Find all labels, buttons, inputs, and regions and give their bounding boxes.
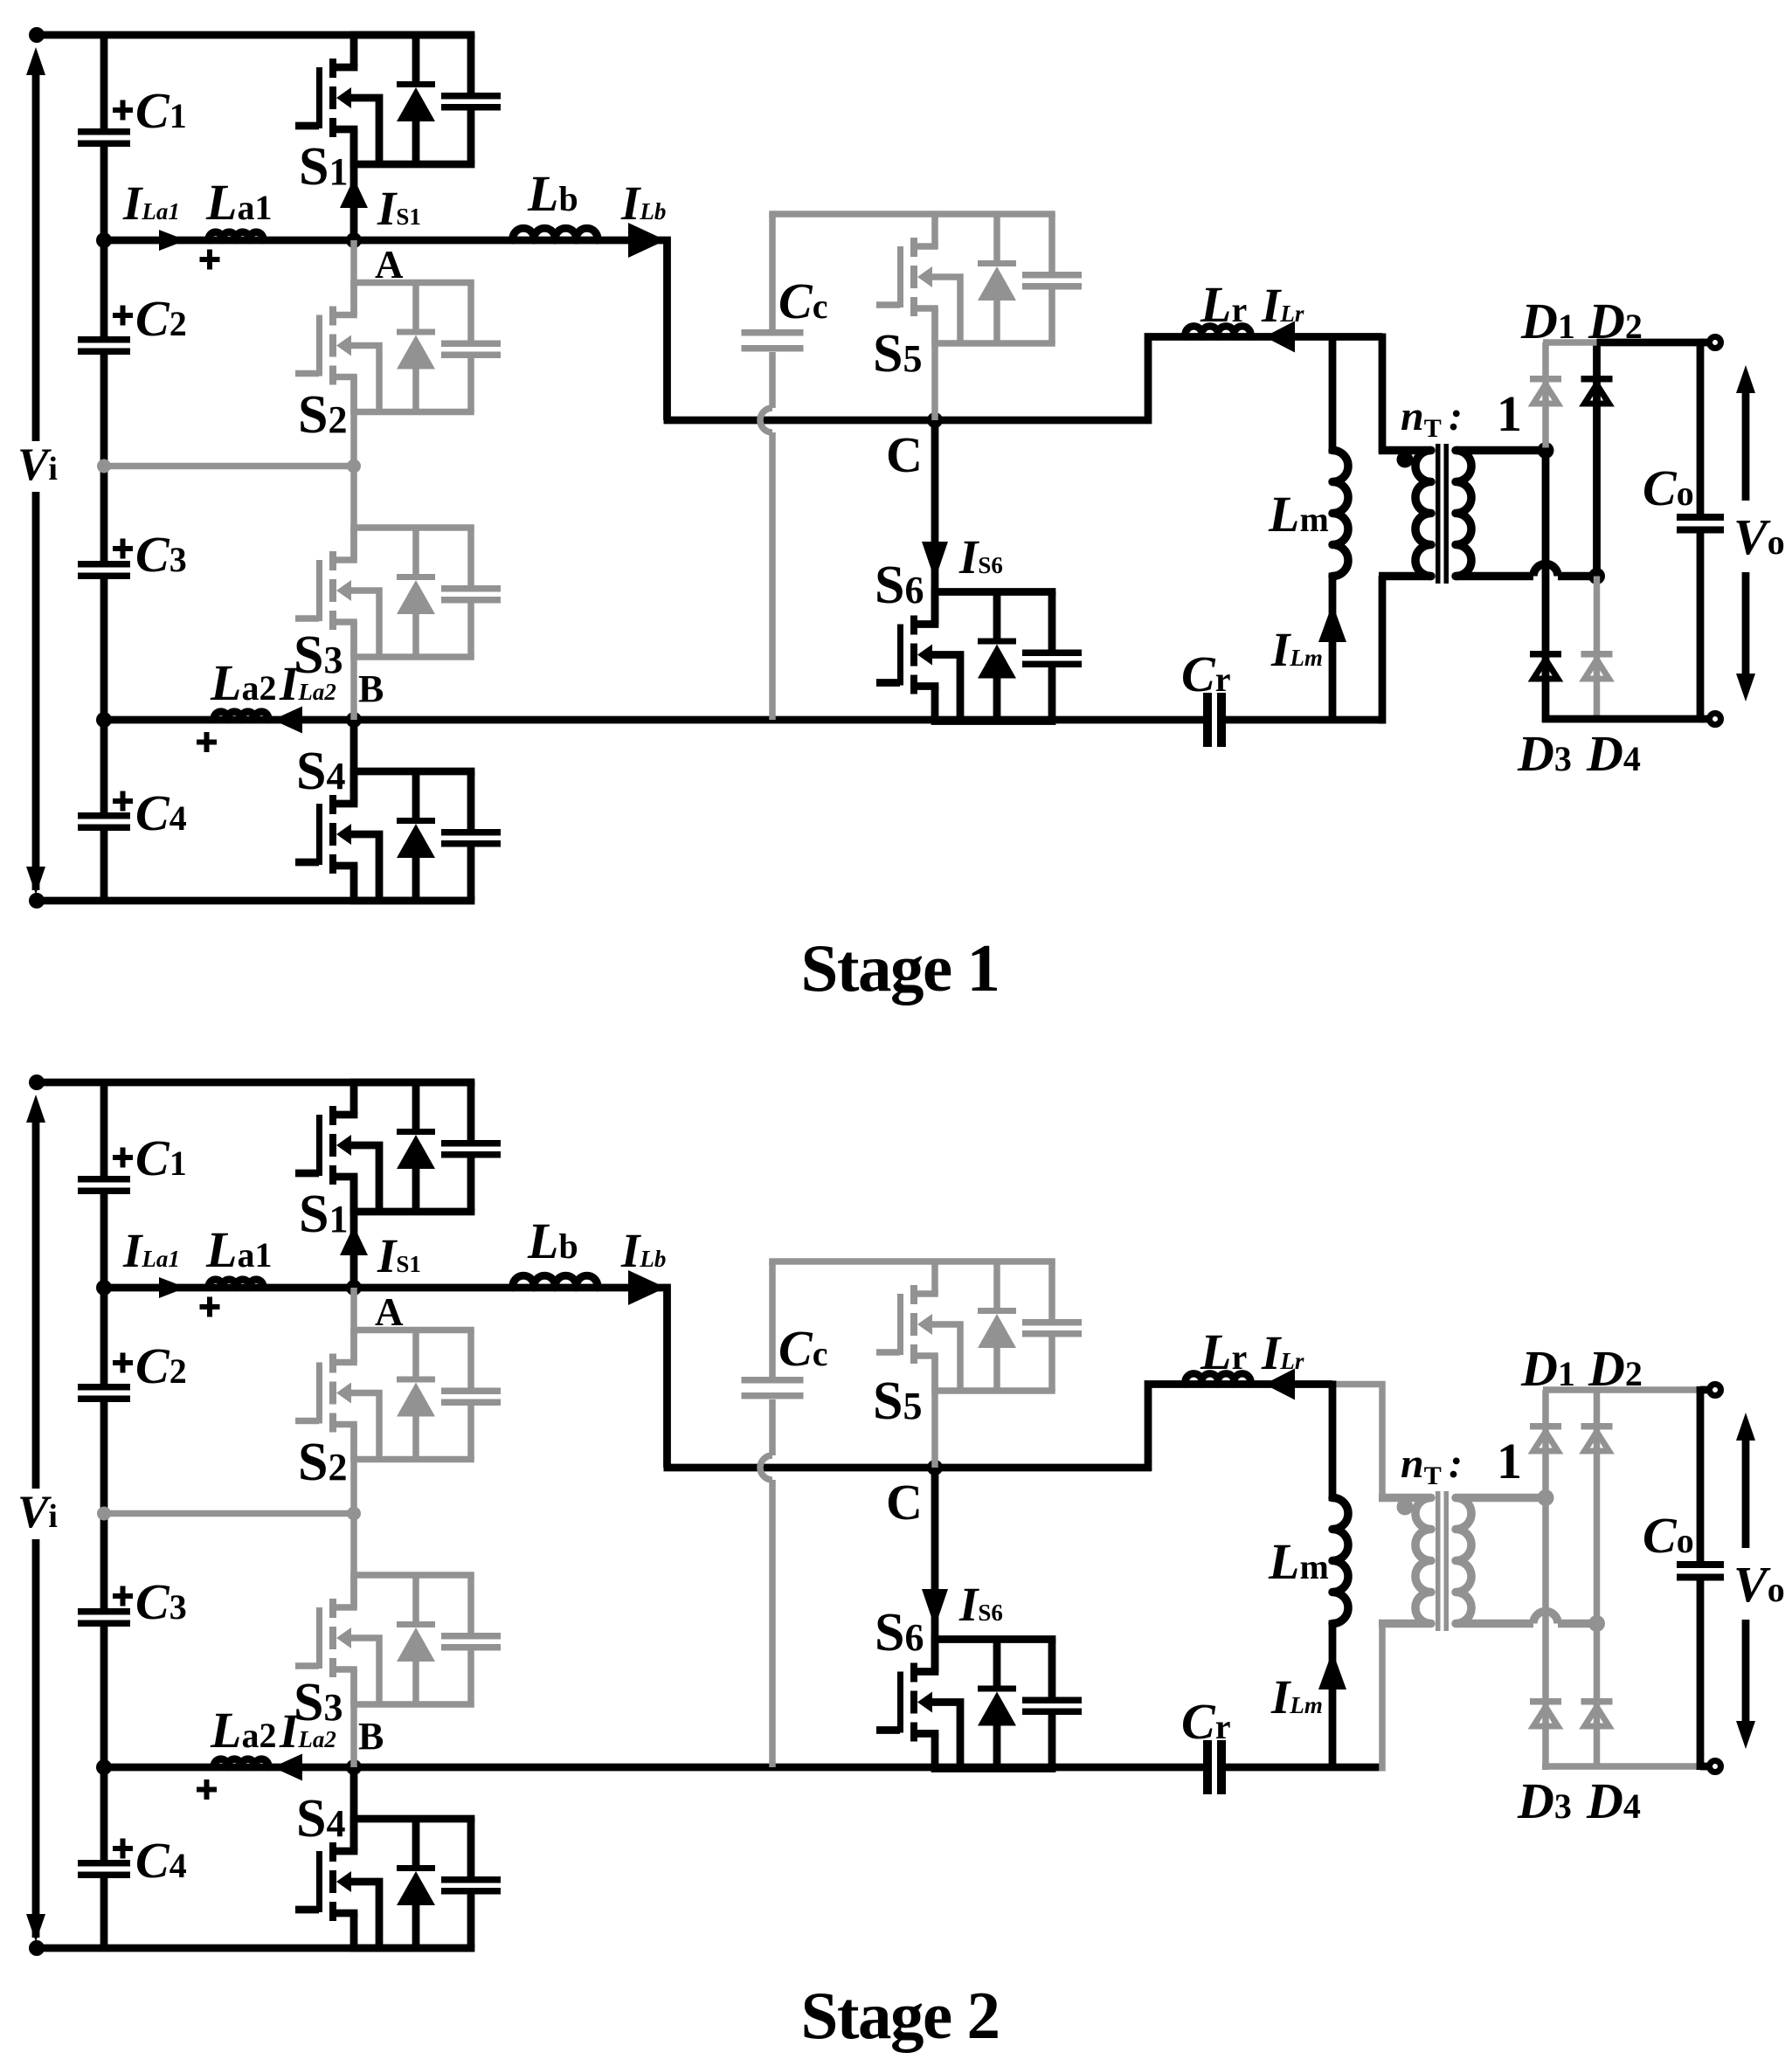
wire Lm winding to Cr wire — [1329, 573, 1337, 721]
label Lm — [1268, 486, 1329, 542]
transistor S3 (MOSFET, gray) — [295, 1574, 501, 1704]
label Stage 2 title — [801, 1978, 1000, 2053]
node top-left junction — [29, 1074, 45, 1090]
wire stub to top terminal — [1700, 1386, 1711, 1394]
wire rectifier top rail to output — [1597, 339, 1705, 347]
svg-text:1: 1 — [1497, 1433, 1522, 1489]
net Vo output-voltage arrow — [1736, 365, 1755, 701]
wire rectifier top rail D1-D2 — [1543, 1386, 1597, 1393]
diode D4 column (gray) — [1594, 1624, 1601, 1770]
wire output column — [1697, 339, 1705, 722]
label La1 — [205, 174, 272, 231]
label Lb — [527, 165, 578, 222]
label turns ratio colon — [1449, 1441, 1463, 1487]
node top-left junction — [29, 27, 45, 43]
capacitor Co — [1677, 514, 1724, 534]
capacitor C2 — [78, 1384, 130, 1402]
wire secondary top to D1 column — [1456, 1494, 1546, 1503]
transistor S2 (MOSFET, gray) — [295, 1330, 501, 1460]
node bottom-left junction — [29, 893, 45, 909]
current arrow IS6 — [922, 542, 948, 580]
terminal bottom output — [1710, 714, 1721, 725]
diode D3 column — [1542, 1498, 1549, 1771]
label ILr — [1261, 279, 1304, 332]
wire bottom rail — [33, 1945, 474, 1952]
wire capacitor chain — [100, 35, 108, 901]
wire stub to top terminal — [1700, 339, 1711, 347]
current arrow ILm — [1318, 1651, 1346, 1689]
wire Lb run — [354, 240, 668, 420]
terminal top output — [1710, 1385, 1721, 1396]
node bottom-left junction — [29, 1940, 45, 1956]
node B junction — [346, 712, 362, 728]
wire Lr wire down to Lm winding — [1329, 1381, 1337, 1502]
wire Lr corner down to primary — [1379, 334, 1387, 454]
wire mid rail (gray) — [104, 1510, 354, 1517]
label Co — [1643, 1507, 1694, 1564]
inductor Lr — [1186, 326, 1251, 336]
wire capacitor chain — [100, 1082, 108, 1948]
label node A — [375, 243, 404, 287]
label D1 — [1520, 293, 1575, 349]
wire node B to S4 drain — [350, 720, 358, 804]
diode D4 column (gray) — [1594, 577, 1601, 722]
diode D4 — [1581, 1698, 1613, 1726]
inductor La2 — [214, 712, 268, 720]
wire top rail — [33, 31, 474, 39]
label Vi — [17, 439, 58, 490]
label ILa1 — [122, 1224, 180, 1277]
capacitor C4 — [78, 1860, 130, 1878]
wire rectifier bottom rail — [1542, 1763, 1697, 1770]
diode D1 — [1530, 1423, 1561, 1451]
inductor Lm — [1332, 1498, 1348, 1624]
label turns ratio colon — [1449, 393, 1463, 439]
label +C2 — [113, 1337, 187, 1394]
transistor S4 (MOSFET) — [295, 770, 501, 901]
junction cap chain / node B wire — [96, 1759, 112, 1775]
label La2 — [210, 654, 276, 711]
label +C2 — [113, 290, 187, 347]
svg-text::: : — [1449, 393, 1463, 439]
label IS6 — [958, 530, 1003, 584]
label S6 — [875, 556, 924, 615]
wire mid rail to S3 drain — [350, 466, 357, 561]
transformer primary winding — [1379, 451, 1431, 577]
label +C3 — [113, 526, 187, 583]
junction secondary top node — [1538, 1489, 1554, 1506]
wire Lr to primary corner (gray) — [1332, 1385, 1382, 1502]
wire S5 source to node C — [931, 1356, 938, 1468]
diode D1 column (gray) — [1542, 342, 1549, 448]
label ILm — [1270, 623, 1323, 676]
label S3 — [294, 1673, 342, 1732]
transistor S6 (MOSFET) — [876, 1639, 1082, 1769]
inductor La2 — [214, 1759, 268, 1767]
capacitor Cr — [1203, 693, 1226, 747]
label Vo — [1733, 1556, 1785, 1613]
label node C — [886, 1474, 923, 1530]
wire Lb run — [354, 1288, 668, 1468]
wire node A run — [104, 237, 354, 245]
svg-text:Stage 1: Stage 1 — [801, 930, 1000, 1005]
label Vi — [17, 1487, 58, 1537]
inductor Lb — [513, 228, 598, 240]
node A junction — [346, 1280, 362, 1296]
capacitor Co — [1677, 1561, 1724, 1581]
label nT — [1401, 393, 1442, 443]
svg-text:C: C — [886, 426, 923, 483]
label D4 — [1586, 725, 1641, 782]
transformer secondary winding — [1456, 1498, 1471, 1624]
inductor Lr — [1186, 1373, 1251, 1384]
wire S3 source to node B — [350, 1669, 357, 1767]
current arrow ILa2 — [273, 1754, 302, 1781]
svg-text:Stage 2: Stage 2 — [801, 1978, 1000, 2053]
label D3 — [1517, 1772, 1572, 1829]
transformer primary winding — [1379, 1498, 1431, 1624]
wire Cr to primary — [1226, 1764, 1380, 1772]
label Cr — [1181, 646, 1230, 702]
wire top rail — [33, 1079, 474, 1087]
current arrow IS1 — [340, 178, 368, 208]
svg-text:1: 1 — [1497, 385, 1522, 442]
current arrow ILr — [1264, 1369, 1295, 1400]
junction secondary bottom node — [1588, 1615, 1605, 1632]
diode D2 column — [1594, 1390, 1601, 1621]
transistor S1 (MOSFET) — [295, 1081, 501, 1212]
wire Cc column (gray, hops node C wire) — [760, 214, 772, 720]
wire stub to bottom terminal — [1700, 1763, 1711, 1771]
label D3 — [1517, 725, 1572, 782]
label +C4 — [113, 1832, 187, 1889]
label Lr — [1200, 1323, 1247, 1380]
transistor S6 (MOSFET) — [876, 591, 1082, 722]
wire secondary top to D1 column — [1456, 446, 1546, 455]
wire Lm winding to Cr wire — [1329, 1620, 1337, 1768]
junction secondary bottom node — [1588, 568, 1605, 584]
wire S3 source to node B — [350, 622, 357, 720]
wire Lr wire down to Lm winding — [1329, 334, 1337, 454]
label ILm — [1270, 1670, 1323, 1724]
diode D2 column — [1593, 342, 1601, 574]
label Lb — [527, 1213, 578, 1269]
label S4 — [296, 1789, 345, 1848]
label +C1 — [113, 1130, 187, 1186]
wire bottom rail — [33, 897, 474, 905]
node B junction — [346, 1759, 362, 1775]
net Vi input-voltage arrow — [26, 1095, 45, 1942]
net Vi input-voltage arrow — [26, 47, 45, 895]
label D1 — [1520, 1340, 1575, 1397]
transistor S4 (MOSFET) — [295, 1818, 501, 1948]
current arrow ILb — [628, 1270, 666, 1305]
transformer core — [1436, 444, 1449, 584]
wire S1 source to node A — [350, 129, 358, 240]
inductor La1 — [209, 232, 263, 240]
label Vo — [1733, 508, 1785, 565]
wire rectifier top rail to output — [1597, 1386, 1698, 1393]
label Cr — [1181, 1693, 1230, 1750]
wire node C to S6 drain — [931, 420, 939, 625]
current arrow IS6 — [922, 1589, 948, 1627]
diode D1 column (gray) — [1542, 1390, 1549, 1496]
wire node C corner up to Lr wire — [1148, 1385, 1332, 1472]
transformer core — [1436, 1491, 1449, 1631]
label Cc — [778, 273, 827, 329]
label S6 — [875, 1603, 924, 1662]
svg-text:C: C — [886, 1474, 923, 1530]
transistor S1 (MOSFET) — [295, 34, 501, 164]
wire stub to bottom terminal — [1700, 715, 1711, 723]
capacitor Cc — [742, 1377, 804, 1399]
terminal top output — [1710, 337, 1721, 349]
label IS1 — [377, 1229, 421, 1282]
current arrow ILm — [1318, 604, 1346, 642]
capacitor C3 — [78, 561, 130, 579]
wire node B run — [104, 716, 1203, 724]
label IS6 — [958, 1578, 1003, 1631]
wire mid rail to S3 drain — [350, 1514, 357, 1608]
wire node C run — [664, 1464, 1152, 1472]
wire node C run — [664, 417, 1152, 425]
label ILr — [1261, 1326, 1304, 1379]
current arrow ILr — [1264, 321, 1295, 353]
wire S2 source to mid rail — [350, 1425, 357, 1514]
wire rectifier top rail D1-D2 — [1543, 339, 1597, 346]
transistor S2 (MOSFET, gray) — [295, 282, 501, 412]
transformer polarity dot — [1397, 452, 1414, 468]
inductor La1 — [209, 1280, 263, 1288]
wire secondary bottom to D2 column (hops D1 column) — [1456, 1612, 1597, 1624]
junction mid rail / S2-S3 column — [347, 459, 361, 473]
wire mid rail (gray) — [104, 463, 354, 470]
label +C1 — [113, 82, 187, 139]
diode D3 column — [1542, 451, 1550, 723]
label S2 — [298, 385, 347, 445]
capacitor C1 — [78, 128, 130, 147]
label node C — [886, 426, 923, 483]
current arrow IS1 — [340, 1226, 368, 1255]
inductor Lm — [1332, 451, 1348, 577]
label ILb — [620, 176, 666, 230]
label ILa1 — [122, 176, 180, 230]
transformer secondary winding — [1456, 451, 1471, 577]
current arrow ILa1 — [159, 1277, 186, 1298]
wire node B run — [104, 1764, 1203, 1772]
wire Cc column (gray, hops node C wire) — [760, 1261, 772, 1767]
svg-text:B: B — [358, 667, 384, 710]
net Vo output-voltage arrow — [1736, 1413, 1755, 1749]
current arrow ILb — [628, 223, 666, 258]
label D2 — [1588, 1340, 1643, 1397]
wire node A run — [104, 1284, 354, 1292]
polarity + of La1 — [200, 1297, 220, 1317]
label Stage 1 title — [801, 930, 1000, 1005]
label D2 — [1588, 293, 1643, 349]
label 1 — [1497, 385, 1522, 442]
terminal bottom output — [1710, 1761, 1721, 1772]
svg-text::: : — [1449, 1441, 1463, 1487]
polarity + of La1 — [200, 250, 220, 270]
diode D1 — [1530, 376, 1561, 404]
diode D2 — [1581, 1423, 1613, 1451]
node C junction — [927, 1460, 943, 1475]
capacitor Cr — [1203, 1740, 1226, 1794]
wire node B to S4 drain — [350, 1767, 358, 1851]
wire node C corner up to Lr wire — [1148, 337, 1382, 425]
node A junction — [346, 232, 362, 248]
junction cap chain / mid rail — [97, 1507, 111, 1521]
transistor S5 (MOSFET, gray) — [769, 213, 1082, 343]
label ILa2 — [279, 657, 336, 710]
wire S5 source to node C — [931, 308, 938, 420]
wire secondary bottom to D2 column (hops D1 column) — [1456, 564, 1597, 577]
wire primary bottom to Cr wire — [1379, 1624, 1386, 1772]
junction cap chain / mid rail — [97, 459, 111, 473]
label Lm — [1268, 1533, 1329, 1590]
wire rectifier bottom rail — [1542, 715, 1704, 723]
label S5 — [873, 1372, 922, 1431]
label Cc — [778, 1320, 827, 1377]
svg-text:B: B — [358, 1715, 384, 1758]
label La2 — [210, 1702, 276, 1759]
capacitor C4 — [78, 812, 130, 831]
label +C3 — [113, 1573, 187, 1630]
label 1 — [1497, 1433, 1522, 1489]
transistor S5 (MOSFET, gray) — [769, 1261, 1082, 1391]
label S5 — [873, 324, 922, 383]
wire output column — [1697, 1386, 1705, 1770]
current arrow ILa2 — [273, 707, 302, 734]
inductor Lb — [513, 1275, 598, 1288]
label Lr — [1200, 276, 1247, 333]
node C junction — [927, 412, 943, 428]
label node A — [375, 1290, 404, 1334]
diode D4 — [1581, 651, 1613, 679]
label nT — [1401, 1441, 1442, 1490]
wire node A to S2 drain — [350, 1288, 357, 1363]
label La1 — [205, 1221, 272, 1278]
capacitor Cc — [742, 329, 804, 352]
capacitor C1 — [78, 1176, 130, 1194]
label S1 — [299, 1185, 348, 1244]
junction cap chain / node B wire — [96, 712, 112, 728]
polarity + of La2 — [197, 1779, 217, 1800]
transformer polarity dot — [1397, 1499, 1414, 1516]
junction cap chain / node A wire — [96, 232, 112, 248]
capacitor C2 — [78, 336, 130, 355]
label ILb — [620, 1224, 666, 1277]
junction secondary top node — [1538, 442, 1554, 459]
label ILa2 — [279, 1704, 336, 1758]
wire node A to S2 drain — [350, 240, 357, 315]
wire node C to S6 drain — [931, 1468, 939, 1672]
polarity + of La2 — [197, 732, 217, 752]
wire S1 source to node A — [350, 1177, 358, 1288]
label D4 — [1586, 1772, 1641, 1829]
wire Cr to primary — [1226, 716, 1386, 724]
diode D3 — [1530, 651, 1561, 679]
wire S2 source to mid rail — [350, 377, 357, 466]
label IS1 — [377, 182, 421, 235]
label S3 — [294, 625, 342, 685]
current arrow ILa1 — [159, 230, 186, 251]
junction cap chain / node A wire — [96, 1280, 112, 1296]
diode D2 — [1581, 376, 1613, 404]
wire primary bottom to Cr wire — [1379, 577, 1387, 724]
label node B — [358, 1715, 384, 1758]
label +C4 — [113, 784, 187, 841]
transistor S3 (MOSFET, gray) — [295, 527, 501, 657]
label S4 — [296, 742, 345, 801]
label node B — [358, 667, 384, 710]
label Co — [1643, 459, 1694, 516]
junction mid rail / S2-S3 column — [347, 1507, 361, 1521]
label S2 — [298, 1433, 347, 1492]
capacitor C3 — [78, 1608, 130, 1627]
diode D3 — [1530, 1698, 1561, 1726]
label S1 — [299, 137, 348, 197]
